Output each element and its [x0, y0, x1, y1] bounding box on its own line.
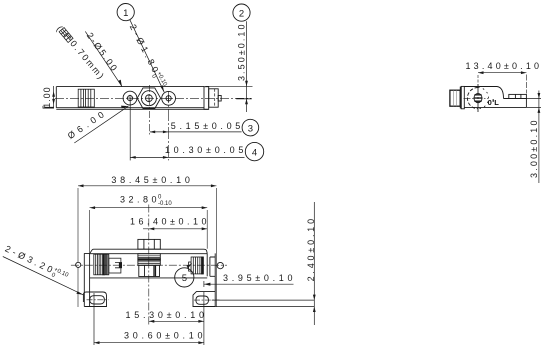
leader phi6.00 — [74, 106, 128, 143]
body bottom line — [90, 277, 208, 279]
left connector front — [94, 254, 122, 275]
body top face line — [90, 253, 208, 255]
knurled circle — [467, 88, 478, 109]
svg-text:4: 4 — [252, 147, 257, 158]
hex center vertical dashed line — [148, 85, 150, 135]
leader 2-phi3.20 — [3, 257, 83, 295]
side body outline — [464, 87, 526, 108]
svg-text:L: L — [494, 98, 499, 107]
center stack: top nut — [138, 239, 160, 249]
svg-text:1: 1 — [123, 8, 128, 19]
label phi6.00 — [66, 109, 106, 141]
balloon 4 — [245, 142, 263, 160]
center stack: ribbed mid — [138, 254, 160, 266]
left circle vertical extension — [129, 98, 131, 160]
balloon 3 — [242, 119, 259, 136]
right end cap A — [204, 87, 209, 110]
side plug — [450, 90, 460, 106]
left hole circle — [123, 91, 137, 105]
dimension 1.00 vertical line — [53, 86, 55, 109]
svg-text:2: 2 — [239, 8, 244, 19]
right mounting ear — [193, 292, 215, 307]
svg-text:-0.10: -0.10 — [158, 201, 172, 207]
left step notch — [43, 106, 54, 108]
left long extension line — [77, 188, 79, 307]
right connector front — [189, 257, 204, 274]
balloon 2 — [233, 4, 250, 21]
svg-text:5.15±0.05: 5.15±0.05 — [171, 121, 241, 131]
centerline tick right — [236, 98, 252, 100]
svg-text:1.00: 1.00 — [42, 87, 52, 108]
dimension 3.95 — [203, 281, 205, 287]
dimension 1.00 arrows — [52, 91, 55, 104]
svg-text:3.00±0.10: 3.00±0.10 — [529, 120, 539, 178]
front horizontal centerline — [71, 264, 227, 266]
label 2-phi5.00 — [85, 31, 120, 73]
front vertical centerline — [148, 205, 150, 326]
right slot — [196, 296, 209, 304]
hex nut around middle circle — [137, 88, 160, 109]
balloon 1 — [117, 4, 134, 21]
balloon 5 — [175, 268, 194, 287]
side pins block — [509, 94, 527, 98]
leader 2-phi5.00 — [85, 31, 122, 86]
dimension 2.40 — [212, 300, 315, 306]
left slot — [90, 296, 105, 304]
right bump circle — [217, 262, 223, 268]
extension line body top — [206, 85, 253, 87]
center stack: lower hex — [139, 265, 160, 276]
marking 0L — [488, 98, 500, 107]
svg-text:2.40±0.10: 2.40±0.10 — [306, 218, 316, 281]
right pin — [218, 96, 221, 102]
left bump circle — [76, 262, 81, 267]
middle circle — [141, 91, 156, 106]
right circle vertical extension — [167, 91, 169, 160]
right end cap B — [209, 89, 219, 107]
left mounting ear — [83, 292, 106, 307]
svg-text:0: 0 — [488, 98, 492, 107]
dimension 3.50 arrows — [245, 81, 248, 105]
label 2-phi1.80 — [125, 23, 168, 91]
side flange plate — [460, 87, 462, 109]
body top bar — [90, 249, 208, 253]
dimension 10.30 — [130, 156, 244, 158]
leader from balloon 1 — [130, 20, 164, 93]
svg-text:5: 5 — [182, 273, 187, 284]
svg-text:3.95±0.10: 3.95±0.10 — [223, 273, 293, 283]
body right edge — [206, 253, 208, 276]
side circle centerlines — [477, 84, 479, 113]
svg-text:3: 3 — [248, 123, 253, 134]
right hole circle — [162, 91, 176, 105]
dimension 3.00 — [526, 99, 541, 108]
note (cjk depth 0.70mm) — [55, 23, 106, 81]
left flange plate front — [84, 253, 89, 306]
dimension 5.15 — [150, 131, 242, 133]
svg-text:3.50±0.10: 3.50±0.10 — [237, 24, 247, 81]
right long extension line — [215, 188, 217, 307]
body outline top view — [56, 87, 208, 110]
right flange plate front — [210, 253, 215, 306]
ribbed nut block top view — [78, 89, 94, 107]
dimension 3.50 line — [246, 21, 248, 112]
top view horizontal centerline — [55, 97, 252, 99]
